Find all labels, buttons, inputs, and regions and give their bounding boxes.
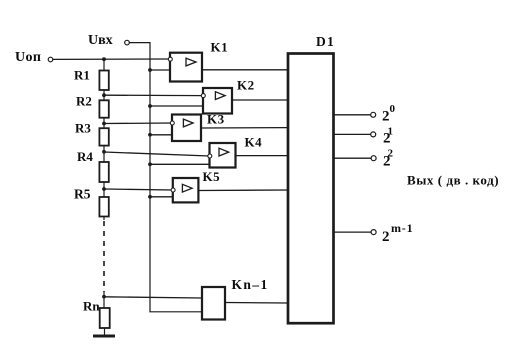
svg-text:K5: K5 <box>203 169 221 184</box>
wire K5 output <box>198 189 288 192</box>
svg-text:D1: D1 <box>316 34 335 49</box>
wire bus to K3 lower input <box>150 134 172 136</box>
svg-text:1: 1 <box>388 126 394 138</box>
terminal Uvx circle <box>125 40 130 45</box>
node R1-R2 <box>102 93 106 97</box>
wire dashed ladder continuation <box>103 221 105 292</box>
ground <box>93 335 115 338</box>
wire tap to Kn-1 <box>104 297 202 298</box>
wire R1-R2 <box>103 90 105 100</box>
wire bus to K1 lower input <box>150 69 170 71</box>
svg-text:m-1: m-1 <box>391 221 413 235</box>
svg-text:Uоп: Uоп <box>15 50 41 65</box>
wire K4 output <box>236 155 289 157</box>
svg-text:R4: R4 <box>77 149 93 164</box>
wire bus to K2 lower input <box>150 105 203 107</box>
svg-text:Kn–1: Kn–1 <box>232 277 269 292</box>
comparator K1 <box>168 40 228 82</box>
resistor R5 <box>99 197 108 217</box>
svg-text:R1: R1 <box>74 68 90 83</box>
resistor R1 <box>99 71 108 91</box>
node R3-R4 <box>102 150 106 154</box>
wire tap4 to K5 <box>104 189 173 190</box>
wire tap3 to K4 <box>104 152 210 156</box>
resistor Rn <box>100 308 110 328</box>
terminal Uop circle <box>48 57 53 62</box>
wire output 2^m-1 <box>334 231 371 233</box>
wire R3-R4 <box>103 146 105 162</box>
terminal 2^0 circle <box>371 112 376 117</box>
comparator K2 <box>201 78 254 114</box>
node Rn top <box>102 295 106 299</box>
wire tap2 to K3 <box>104 122 172 125</box>
resistor R4 <box>99 162 108 182</box>
svg-text:2: 2 <box>382 109 390 125</box>
wire Rn to ground <box>104 328 106 335</box>
wire output 2^1 <box>334 133 371 135</box>
wire bus to K5 lower input <box>150 196 173 198</box>
svg-text:K1: K1 <box>211 40 229 55</box>
wire R5 bottom stub <box>103 217 105 221</box>
svg-text:K4: K4 <box>245 135 263 150</box>
wire Kn-1 output <box>225 302 288 305</box>
svg-text:K2: K2 <box>237 78 255 93</box>
svg-text:2: 2 <box>382 229 390 245</box>
comparator K5 <box>171 169 220 202</box>
terminal 2^2 circle <box>371 156 376 161</box>
wire dashed end to Rn <box>103 292 105 308</box>
node bus-K5 <box>148 195 152 199</box>
wire Uop to K1 input <box>53 58 170 60</box>
wire R4-R5 <box>103 182 105 197</box>
terminal 2^m-1 circle <box>371 230 376 235</box>
node R4-R5 <box>102 187 106 191</box>
node ladder top junction <box>102 57 106 61</box>
resistor R3 <box>99 128 108 145</box>
wire ladder top segment <box>103 59 105 70</box>
svg-text:Rn: Rn <box>83 299 100 314</box>
svg-text:R3: R3 <box>75 121 91 136</box>
node bus-K2 <box>148 104 152 108</box>
svg-text:R5: R5 <box>74 187 91 202</box>
resistor R2 <box>99 100 108 117</box>
terminal 2^1 circle <box>371 132 376 137</box>
wire tap1 to K2 <box>104 94 203 96</box>
wire output 2^2 <box>334 157 371 159</box>
svg-text:Вых ( дв . код): Вых ( дв . код) <box>407 173 499 188</box>
node bus-K4 <box>148 162 152 166</box>
wire K3 output <box>201 127 288 129</box>
node bus-K1 <box>148 68 152 72</box>
comparator K4 <box>208 135 262 168</box>
comparator K3 <box>170 112 224 142</box>
wire K1 output <box>202 69 288 71</box>
node bus-K3 <box>148 133 152 137</box>
wire Uvx bus <box>129 43 202 312</box>
encoder D1 <box>288 34 335 323</box>
wire K2 output <box>232 99 288 101</box>
comparator Kn-1 <box>202 277 269 320</box>
svg-text:0: 0 <box>390 103 396 115</box>
node R2-R3 <box>102 122 106 126</box>
svg-text:R2: R2 <box>76 94 92 109</box>
svg-text:2: 2 <box>388 148 394 160</box>
wire bus to K4 lower input <box>150 163 210 165</box>
svg-text:K3: K3 <box>207 112 225 127</box>
svg-text:Uвх: Uвх <box>88 33 113 48</box>
wire output 2^0 <box>334 114 371 116</box>
wire R2-R3 <box>103 118 105 129</box>
